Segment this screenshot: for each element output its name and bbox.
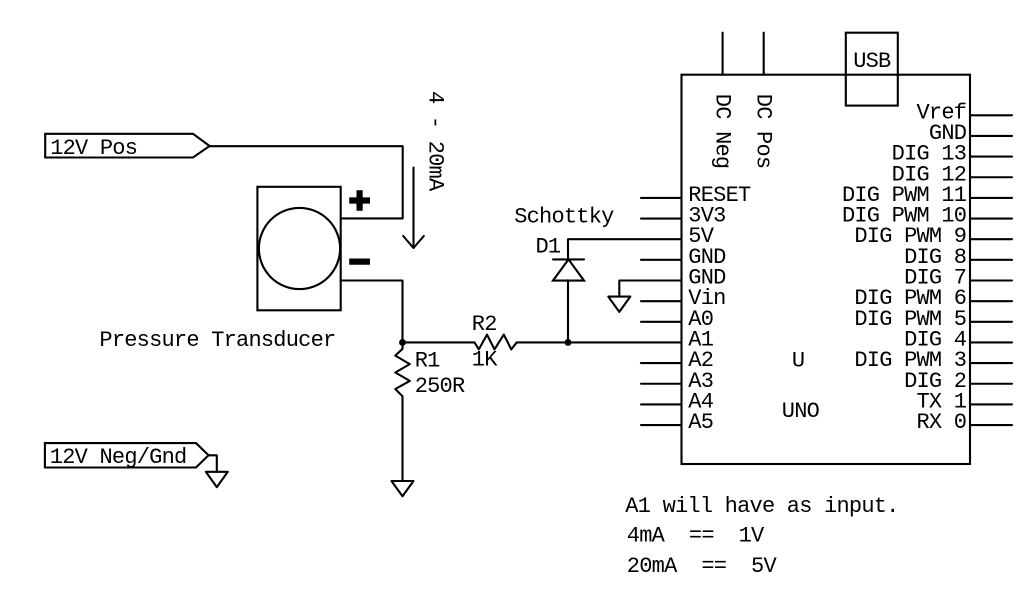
- pin GND (right row 1): [970, 135, 1012, 137]
- pin DIG 12 (right row 3): [970, 176, 1012, 178]
- svg-text:DC Pos: DC Pos: [751, 94, 776, 169]
- diode D1 (Schottky): [553, 259, 584, 280]
- pin DIG PWM 11 (right row 4): [970, 197, 1012, 199]
- wire R2 to pin A1: [517, 341, 682, 343]
- pin TX 1 (right row 14): [970, 403, 1012, 405]
- svg-text:4mA == 1V: 4mA == 1V: [627, 524, 765, 549]
- pin DC Neg: [722, 33, 724, 75]
- wire transducer - terminal to junction: [341, 281, 403, 343]
- svg-text:1K: 1K: [472, 347, 498, 372]
- minus terminal mark: [349, 259, 370, 265]
- wire D1 cathode to 5V pin: [568, 239, 682, 260]
- IC U Arduino UNO body: [682, 75, 971, 464]
- pin DIG 13 (right row 2): [970, 156, 1012, 158]
- pin DIG PWM 10 (right row 5): [970, 218, 1012, 220]
- svg-text:250R: 250R: [415, 374, 465, 399]
- ground (R1): [392, 481, 414, 496]
- resistor R2: [475, 335, 517, 350]
- svg-text:RX 0: RX 0: [916, 410, 966, 435]
- svg-text:R2: R2: [472, 312, 497, 337]
- pressure transducer body: [257, 187, 340, 310]
- pin DIG PWM 9 (right row 6): [970, 238, 1012, 240]
- svg-text:D1: D1: [536, 235, 561, 260]
- wire GND pin to ground: [619, 281, 681, 297]
- pin RESET (left row 4): [641, 197, 682, 199]
- net flag 12V Pos: [45, 134, 209, 161]
- current direction arrow: [403, 168, 424, 249]
- pin A0 (left row 10): [641, 321, 682, 323]
- junction (R1/R2 node): [399, 339, 406, 346]
- svg-text:USB: USB: [853, 49, 891, 74]
- wire 12V Pos to transducer + terminal: [210, 146, 403, 218]
- pin DIG 8 (right row 7): [970, 259, 1012, 261]
- svg-text:12V Neg/Gnd: 12V Neg/Gnd: [50, 445, 187, 470]
- wire 12V Neg/Gnd to ground: [209, 455, 217, 472]
- svg-text:Pressure Transducer: Pressure Transducer: [99, 328, 335, 353]
- svg-text:4 - 20mA: 4 - 20mA: [423, 91, 448, 192]
- wire junction to R2: [403, 341, 475, 343]
- pin DC Pos: [763, 33, 765, 75]
- svg-text:A1 will have as input.: A1 will have as input.: [625, 494, 898, 519]
- svg-text:20mA == 5V: 20mA == 5V: [627, 554, 778, 579]
- pin Vref (right row 0): [970, 114, 1012, 116]
- wire D1 anode to A1 net: [567, 280, 569, 342]
- svg-text:12V Pos: 12V Pos: [50, 136, 137, 161]
- pin 3V3 (left row 5): [641, 218, 682, 220]
- pin DIG 7 (right row 8): [970, 279, 1012, 281]
- svg-text:UNO: UNO: [782, 399, 820, 424]
- pin A3 (left row 13): [641, 383, 682, 385]
- pin GND (left row 7): [641, 259, 682, 261]
- pin Vin (left row 9): [641, 300, 682, 302]
- ground (GND pin): [608, 297, 630, 312]
- svg-text:A5: A5: [688, 410, 713, 435]
- pin DIG 2 (right row 13): [970, 383, 1012, 385]
- plus terminal mark: [349, 190, 370, 211]
- pin DIG PWM 3 (right row 12): [970, 362, 1012, 364]
- pin RX 0 (right row 15): [970, 424, 1012, 426]
- pin DIG PWM 6 (right row 9): [970, 300, 1012, 302]
- svg-text:R1: R1: [415, 348, 440, 373]
- svg-text:U: U: [792, 348, 804, 373]
- pin DIG 4 (right row 11): [970, 341, 1012, 343]
- net flag 12V Neg/Gnd: [45, 443, 209, 470]
- pin A2 (left row 12): [641, 362, 682, 364]
- USB connector box: [846, 33, 898, 106]
- pin A5 (left row 15): [641, 424, 682, 426]
- wire R1 to ground: [401, 396, 403, 481]
- pin DIG PWM 5 (right row 10): [970, 321, 1012, 323]
- svg-text:DC Neg: DC Neg: [710, 94, 735, 169]
- pin A4 (left row 14): [641, 403, 682, 405]
- ground (12V Neg/Gnd): [206, 472, 228, 487]
- resistor R1: [395, 342, 410, 396]
- junction (D1 anode node): [565, 339, 572, 346]
- svg-text:Schottky: Schottky: [514, 205, 614, 230]
